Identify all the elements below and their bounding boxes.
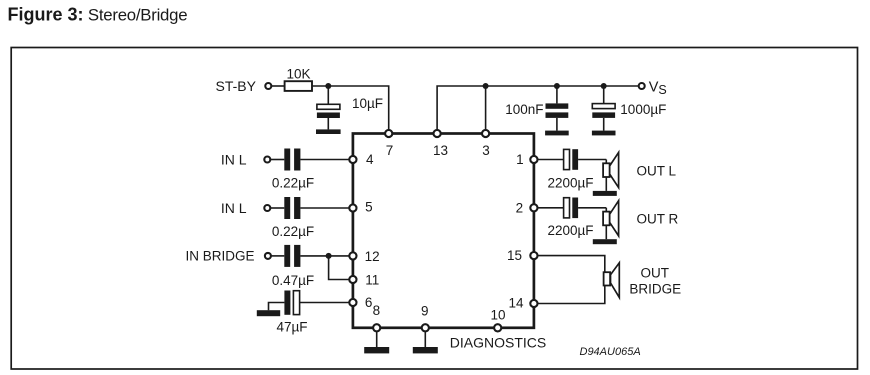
svg-text:2200µF: 2200µF: [547, 223, 593, 238]
pin 2: [530, 204, 537, 211]
speaker LS2 OUT R: [603, 201, 619, 236]
wire pin 1 to C8: [537, 159, 564, 161]
wire C9 to speaker LS2: [578, 207, 606, 209]
pin 1: [530, 156, 537, 163]
svg-text:D94AU065A: D94AU065A: [580, 346, 641, 358]
junction dot 1000uF: [601, 83, 607, 89]
ground below LS2: [593, 239, 617, 244]
svg-text:10µF: 10µF: [352, 96, 383, 111]
ground below pin 8: [364, 347, 389, 353]
wire C5 to pin 5: [300, 207, 353, 209]
wire pin 14 to LS3 bottom: [537, 286, 605, 304]
terminal IN L lower: [264, 205, 270, 211]
wire pin 9 ground lead: [424, 328, 426, 347]
pin 15: [530, 252, 537, 259]
capacitor C9 2200uF: [564, 198, 579, 219]
capacitor C6 0.47uF: [284, 245, 300, 267]
ground below C3: [592, 131, 616, 136]
svg-text:ST-BY: ST-BY: [216, 78, 257, 94]
pin 10: [494, 324, 501, 331]
svg-text:10: 10: [490, 308, 505, 323]
svg-text:5: 5: [365, 200, 373, 215]
pin 12: [349, 252, 356, 259]
svg-text:15: 15: [507, 248, 522, 263]
resistor R1 10K: [285, 81, 312, 91]
wire terminal to C4: [271, 159, 285, 161]
pin 7: [385, 130, 392, 137]
capacitor C2 100nF: [546, 86, 569, 131]
svg-text:1: 1: [516, 152, 524, 167]
pin 14: [530, 300, 537, 307]
svg-text:8: 8: [373, 303, 381, 318]
svg-text:0.22µF: 0.22µF: [272, 224, 314, 239]
terminal IN BRIDGE: [265, 253, 271, 259]
wire ST-BY rail: [272, 85, 285, 87]
svg-text:9: 9: [421, 303, 429, 318]
svg-text:Figure 3: Stereo/Bridge: Figure 3: Stereo/Bridge: [8, 4, 188, 24]
svg-text:IN BRIDGE: IN BRIDGE: [185, 249, 254, 264]
pin 4: [349, 156, 356, 163]
pin 9: [422, 324, 429, 331]
ground below pin 9: [413, 347, 438, 353]
svg-text:13: 13: [433, 143, 448, 158]
terminal ST-BY: [265, 83, 271, 89]
svg-text:OUT L: OUT L: [637, 163, 677, 178]
junction dot 100nF: [554, 83, 560, 89]
svg-text:3: 3: [482, 143, 490, 158]
svg-text:OUT: OUT: [640, 266, 669, 281]
junction dot at R1/C1: [325, 83, 331, 89]
svg-text:6: 6: [365, 295, 373, 310]
svg-text:0.47µF: 0.47µF: [272, 273, 314, 288]
svg-text:10K: 10K: [286, 67, 310, 82]
wire pin 8 ground lead: [376, 328, 378, 347]
svg-text:11: 11: [365, 273, 379, 288]
svg-text:4: 4: [366, 152, 374, 167]
pin 11: [349, 276, 356, 283]
svg-text:2: 2: [516, 200, 524, 215]
svg-text:IN L: IN L: [221, 200, 247, 216]
speaker LS1 OUT L: [603, 152, 619, 187]
wire terminal to C6: [271, 255, 284, 257]
capacitor C7 47uF: [284, 291, 299, 315]
wire resistor to pin 7 riser: [312, 86, 389, 134]
svg-text:12: 12: [365, 249, 380, 264]
wire pin 3 riser: [485, 86, 487, 131]
wire C4 to pin 4: [300, 159, 353, 161]
speaker LS3 OUT BRIDGE: [604, 263, 620, 298]
wire C8 to speaker LS1: [578, 159, 606, 161]
capacitor C3 1000uF: [592, 86, 615, 131]
junction dot pin3 riser: [483, 83, 489, 89]
capacitor C4 0.22uF: [284, 149, 300, 171]
svg-text:VS: VS: [649, 80, 667, 98]
capacitor C5 0.22uF: [284, 197, 300, 219]
ground below LS1: [593, 191, 617, 196]
capacitor C8 2200uF: [564, 149, 579, 170]
wire ground to C7: [269, 303, 285, 311]
wire LS2 lead down: [605, 208, 607, 239]
svg-text:7: 7: [386, 143, 394, 158]
ground below C2: [545, 131, 569, 136]
svg-text:0.22µF: 0.22µF: [272, 175, 314, 190]
pin 6: [349, 299, 356, 306]
svg-text:BRIDGE: BRIDGE: [629, 282, 681, 297]
junction dot C6 branch: [326, 253, 332, 259]
wire VS rail: [437, 86, 641, 131]
wire LS1 lead down: [605, 160, 607, 191]
svg-text:100nF: 100nF: [505, 102, 543, 117]
wire C7 to pin 6: [300, 302, 353, 304]
ground below C1: [316, 129, 341, 134]
svg-text:1000µF: 1000µF: [620, 102, 666, 117]
pin 3: [482, 130, 489, 137]
ground at C7: [257, 310, 280, 316]
pin 8: [373, 324, 380, 331]
pin 13: [434, 130, 441, 137]
svg-text:IN L: IN L: [221, 151, 247, 167]
svg-text:DIAGNOSTICS: DIAGNOSTICS: [450, 334, 546, 350]
svg-text:OUT R: OUT R: [637, 211, 679, 226]
terminal VS: [639, 83, 645, 89]
wire terminal to C5: [271, 207, 285, 209]
wire pin 2 to C9: [537, 207, 564, 209]
svg-text:47µF: 47µF: [276, 319, 307, 334]
wire branch to pin 11: [329, 256, 353, 280]
pin 5: [349, 204, 356, 211]
capacitor C1 10uF: [317, 86, 340, 129]
wire C6 to pin 12: [300, 255, 353, 257]
svg-text:14: 14: [508, 296, 524, 311]
terminal IN L upper: [264, 157, 270, 163]
svg-text:2200µF: 2200µF: [547, 175, 593, 190]
op-amp U1 IC body: [353, 134, 534, 328]
wire pin 15 to LS3 top: [537, 256, 605, 273]
